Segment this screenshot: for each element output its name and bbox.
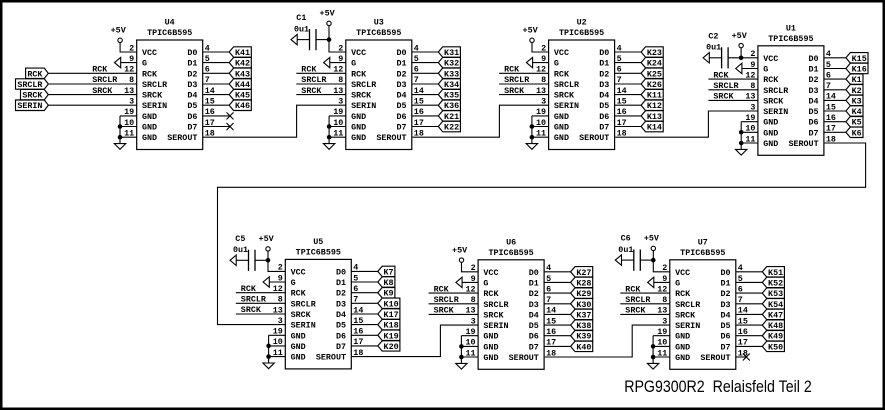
svg-text:K51: K51 xyxy=(768,268,783,278)
svg-text:D0: D0 xyxy=(336,267,346,277)
svg-text:RCK: RCK xyxy=(434,284,450,294)
svg-text:SRCK: SRCK xyxy=(675,310,696,320)
svg-text:SRCLR: SRCLR xyxy=(483,300,509,310)
svg-text:D7: D7 xyxy=(720,342,730,352)
svg-text:D0: D0 xyxy=(529,268,539,278)
svg-text:SEROUT: SEROUT xyxy=(700,353,730,363)
svg-text:VCC: VCC xyxy=(483,268,498,278)
svg-text:SEROUT: SEROUT xyxy=(316,353,346,363)
svg-text:K2: K2 xyxy=(852,86,862,96)
svg-text:RCK: RCK xyxy=(554,69,570,79)
svg-text:GND: GND xyxy=(351,133,366,143)
svg-text:G: G xyxy=(291,278,296,288)
svg-text:G: G xyxy=(554,59,559,69)
svg-text:D6: D6 xyxy=(720,332,730,342)
svg-text:0u1: 0u1 xyxy=(294,24,309,34)
svg-text:D1: D1 xyxy=(529,278,539,288)
svg-text:SERIN: SERIN xyxy=(351,101,376,111)
svg-text:GND: GND xyxy=(554,123,569,133)
svg-text:K8: K8 xyxy=(383,278,393,288)
svg-text:SERIN: SERIN xyxy=(763,107,788,117)
svg-text:U3: U3 xyxy=(374,18,384,28)
svg-text:TPIC6B595: TPIC6B595 xyxy=(356,28,401,38)
svg-text:D4: D4 xyxy=(529,310,539,320)
svg-text:K23: K23 xyxy=(647,48,662,58)
svg-text:SEROUT: SEROUT xyxy=(509,353,539,363)
svg-text:K40: K40 xyxy=(576,342,591,352)
svg-text:D2: D2 xyxy=(336,289,346,299)
svg-text:+5V: +5V xyxy=(259,234,275,244)
svg-text:SRCK: SRCK xyxy=(92,86,113,96)
svg-text:D2: D2 xyxy=(396,69,406,79)
svg-text:K44: K44 xyxy=(235,80,250,90)
svg-text:D4: D4 xyxy=(336,310,346,320)
svg-text:SRCLR: SRCLR xyxy=(554,80,580,90)
svg-text:U2: U2 xyxy=(577,18,587,28)
svg-text:K53: K53 xyxy=(768,289,783,299)
svg-text:GND: GND xyxy=(291,331,306,341)
svg-text:D0: D0 xyxy=(809,54,819,64)
svg-text:G: G xyxy=(763,65,768,75)
svg-text:U4: U4 xyxy=(165,18,175,28)
svg-text:K24: K24 xyxy=(647,59,662,69)
svg-text:D0: D0 xyxy=(396,48,406,58)
svg-text:K54: K54 xyxy=(768,300,783,310)
svg-text:D7: D7 xyxy=(187,123,197,133)
svg-text:VCC: VCC xyxy=(142,48,157,58)
svg-text:D0: D0 xyxy=(599,48,609,58)
svg-text:D1: D1 xyxy=(599,59,609,69)
svg-text:TPIC6B595: TPIC6B595 xyxy=(768,34,813,44)
svg-text:SRCK: SRCK xyxy=(434,306,455,316)
svg-text:GND: GND xyxy=(763,118,778,128)
svg-text:RCK: RCK xyxy=(241,284,257,294)
svg-text:RPG9300R2 Relaisfeld Teil 2: RPG9300R2 Relaisfeld Teil 2 xyxy=(624,377,812,396)
svg-text:SRCLR: SRCLR xyxy=(763,86,789,96)
svg-text:SRCLR: SRCLR xyxy=(713,81,739,91)
svg-text:D3: D3 xyxy=(529,300,539,310)
svg-text:D2: D2 xyxy=(599,69,609,79)
svg-text:SERIN: SERIN xyxy=(554,101,579,111)
svg-text:0u1: 0u1 xyxy=(618,245,633,255)
svg-text:D4: D4 xyxy=(187,91,197,101)
svg-text:K28: K28 xyxy=(576,278,591,288)
svg-text:GND: GND xyxy=(763,128,778,138)
svg-text:K31: K31 xyxy=(444,48,459,58)
svg-text:D1: D1 xyxy=(809,65,819,75)
svg-text:RCK: RCK xyxy=(625,284,641,294)
svg-text:SRCLR: SRCLR xyxy=(291,299,317,309)
svg-text:SRCLR: SRCLR xyxy=(142,80,168,90)
svg-text:K14: K14 xyxy=(647,123,662,133)
svg-text:K13: K13 xyxy=(647,112,662,122)
svg-text:K37: K37 xyxy=(576,310,591,320)
svg-text:0u1: 0u1 xyxy=(706,43,721,53)
svg-text:SRCLR: SRCLR xyxy=(625,295,651,305)
svg-text:D6: D6 xyxy=(187,112,197,122)
svg-text:SERIN: SERIN xyxy=(483,321,508,331)
svg-text:D7: D7 xyxy=(809,128,819,138)
svg-text:D5: D5 xyxy=(336,321,346,331)
svg-text:+5V: +5V xyxy=(644,234,660,244)
svg-text:SRCK: SRCK xyxy=(713,92,734,102)
svg-text:SRCLR: SRCLR xyxy=(241,295,267,305)
svg-text:SRCLR: SRCLR xyxy=(504,75,530,85)
svg-text:TPIC6B595: TPIC6B595 xyxy=(559,28,604,38)
svg-text:GND: GND xyxy=(763,139,778,149)
svg-text:SRCK: SRCK xyxy=(301,86,322,96)
svg-text:SRCK: SRCK xyxy=(483,310,504,320)
svg-text:VCC: VCC xyxy=(763,54,778,64)
svg-text:GND: GND xyxy=(483,353,498,363)
svg-text:K22: K22 xyxy=(444,123,459,133)
svg-text:RCK: RCK xyxy=(483,289,499,299)
svg-text:D5: D5 xyxy=(187,101,197,111)
svg-text:K38: K38 xyxy=(576,321,591,331)
svg-text:D5: D5 xyxy=(720,321,730,331)
svg-text:G: G xyxy=(142,59,147,69)
svg-text:SRCK: SRCK xyxy=(625,306,646,316)
svg-text:GND: GND xyxy=(554,112,569,122)
svg-text:SRCK: SRCK xyxy=(241,305,262,315)
svg-text:RCK: RCK xyxy=(27,69,43,79)
svg-text:K35: K35 xyxy=(444,91,459,101)
svg-text:SERIN: SERIN xyxy=(675,321,700,331)
svg-text:D2: D2 xyxy=(809,75,819,85)
svg-text:SEROUT: SEROUT xyxy=(376,133,406,143)
svg-text:K36: K36 xyxy=(444,101,459,111)
svg-text:K12: K12 xyxy=(647,101,662,111)
svg-text:GND: GND xyxy=(675,332,690,342)
svg-text:TPIC6B595: TPIC6B595 xyxy=(296,248,341,258)
svg-text:VCC: VCC xyxy=(675,268,690,278)
svg-text:SRCLR: SRCLR xyxy=(17,80,43,90)
svg-text:D5: D5 xyxy=(396,101,406,111)
svg-text:K33: K33 xyxy=(444,69,459,79)
svg-text:+5V: +5V xyxy=(320,9,336,19)
svg-text:G: G xyxy=(351,59,356,69)
svg-text:SRCLR: SRCLR xyxy=(351,80,377,90)
svg-text:SRCLR: SRCLR xyxy=(675,300,701,310)
svg-text:GND: GND xyxy=(554,133,569,143)
svg-text:D6: D6 xyxy=(809,118,819,128)
svg-text:RCK: RCK xyxy=(713,70,729,80)
svg-text:K41: K41 xyxy=(235,48,250,58)
svg-text:C5: C5 xyxy=(235,234,245,244)
svg-text:K5: K5 xyxy=(852,118,862,128)
svg-text:TPIC6B595: TPIC6B595 xyxy=(488,248,533,258)
svg-text:K25: K25 xyxy=(647,69,662,79)
svg-text:K19: K19 xyxy=(384,331,399,341)
svg-text:U7: U7 xyxy=(698,238,708,248)
svg-text:SRCK: SRCK xyxy=(763,96,784,106)
svg-text:D2: D2 xyxy=(529,289,539,299)
svg-text:SERIN: SERIN xyxy=(142,101,167,111)
svg-text:SRCK: SRCK xyxy=(22,91,43,101)
svg-text:C6: C6 xyxy=(621,234,631,244)
svg-text:D0: D0 xyxy=(187,48,197,58)
svg-text:GND: GND xyxy=(291,342,306,352)
svg-text:C1: C1 xyxy=(296,13,306,23)
svg-text:K1: K1 xyxy=(852,75,862,85)
svg-text:SRCK: SRCK xyxy=(351,91,372,101)
svg-text:K9: K9 xyxy=(383,289,393,299)
svg-text:D6: D6 xyxy=(529,332,539,342)
svg-text:GND: GND xyxy=(483,332,498,342)
svg-text:K20: K20 xyxy=(384,342,399,352)
svg-text:D1: D1 xyxy=(336,278,346,288)
svg-text:K50: K50 xyxy=(768,342,783,352)
svg-text:K4: K4 xyxy=(852,107,862,117)
svg-text:SEROUT: SEROUT xyxy=(788,139,818,149)
svg-text:GND: GND xyxy=(142,123,157,133)
svg-text:D5: D5 xyxy=(599,101,609,111)
svg-text:D3: D3 xyxy=(336,299,346,309)
svg-text:RCK: RCK xyxy=(92,65,108,75)
svg-text:D7: D7 xyxy=(396,123,406,133)
svg-text:GND: GND xyxy=(291,353,306,363)
svg-text:GND: GND xyxy=(142,112,157,122)
svg-text:K3: K3 xyxy=(852,96,862,106)
svg-text:RCK: RCK xyxy=(504,65,520,75)
svg-text:VCC: VCC xyxy=(351,48,366,58)
svg-text:K7: K7 xyxy=(383,267,393,277)
svg-text:SRCLR: SRCLR xyxy=(92,75,118,85)
svg-text:D3: D3 xyxy=(599,80,609,90)
svg-text:TPIC6B595: TPIC6B595 xyxy=(680,248,725,258)
svg-text:K18: K18 xyxy=(384,321,399,331)
svg-text:0u1: 0u1 xyxy=(233,245,248,255)
svg-text:GND: GND xyxy=(675,353,690,363)
svg-text:D3: D3 xyxy=(809,86,819,96)
svg-text:K30: K30 xyxy=(576,300,591,310)
svg-text:GND: GND xyxy=(351,123,366,133)
svg-text:D7: D7 xyxy=(336,342,346,352)
svg-text:C2: C2 xyxy=(708,31,718,41)
svg-text:SRCK: SRCK xyxy=(291,310,312,320)
svg-text:K16: K16 xyxy=(852,65,867,75)
svg-text:GND: GND xyxy=(483,342,498,352)
svg-text:D2: D2 xyxy=(720,289,730,299)
svg-text:SEROUT: SEROUT xyxy=(167,133,197,143)
svg-text:+5V: +5V xyxy=(732,31,748,41)
svg-text:D6: D6 xyxy=(599,112,609,122)
svg-text:D3: D3 xyxy=(720,300,730,310)
svg-text:U5: U5 xyxy=(313,237,323,247)
svg-text:D7: D7 xyxy=(529,342,539,352)
svg-text:+5V: +5V xyxy=(111,26,127,36)
svg-text:K42: K42 xyxy=(235,59,250,69)
svg-text:G: G xyxy=(675,278,680,288)
svg-text:D5: D5 xyxy=(809,107,819,117)
svg-text:D4: D4 xyxy=(599,91,609,101)
svg-text:VCC: VCC xyxy=(291,267,306,277)
svg-text:RCK: RCK xyxy=(291,289,307,299)
svg-text:SERIN: SERIN xyxy=(17,101,42,111)
svg-text:G: G xyxy=(483,278,488,288)
svg-text:RCK: RCK xyxy=(763,75,779,85)
svg-text:K6: K6 xyxy=(852,128,862,138)
svg-text:K27: K27 xyxy=(576,268,591,278)
svg-text:K47: K47 xyxy=(768,310,783,320)
svg-text:VCC: VCC xyxy=(554,48,569,58)
svg-text:+5V: +5V xyxy=(523,26,539,36)
svg-text:D4: D4 xyxy=(720,310,730,320)
svg-text:K21: K21 xyxy=(444,112,459,122)
svg-text:RCK: RCK xyxy=(142,69,158,79)
svg-text:SRCLR: SRCLR xyxy=(434,295,460,305)
svg-text:TPIC6B595: TPIC6B595 xyxy=(147,28,192,38)
svg-text:K34: K34 xyxy=(444,80,459,90)
svg-text:D1: D1 xyxy=(187,59,197,69)
svg-text:D0: D0 xyxy=(720,268,730,278)
svg-text:K29: K29 xyxy=(576,289,591,299)
svg-text:K49: K49 xyxy=(768,332,783,342)
svg-text:K46: K46 xyxy=(235,101,250,111)
svg-text:RCK: RCK xyxy=(351,69,367,79)
svg-text:GND: GND xyxy=(351,112,366,122)
svg-text:SERIN: SERIN xyxy=(291,321,316,331)
svg-text:RCK: RCK xyxy=(675,289,691,299)
svg-text:D2: D2 xyxy=(187,69,197,79)
svg-text:SEROUT: SEROUT xyxy=(579,133,609,143)
svg-text:K43: K43 xyxy=(235,69,250,79)
svg-text:D4: D4 xyxy=(396,91,406,101)
svg-text:U6: U6 xyxy=(506,238,516,248)
svg-text:D3: D3 xyxy=(187,80,197,90)
svg-text:K10: K10 xyxy=(384,299,399,309)
svg-text:D1: D1 xyxy=(396,59,406,69)
svg-text:GND: GND xyxy=(142,133,157,143)
svg-text:GND: GND xyxy=(675,342,690,352)
svg-text:U1: U1 xyxy=(786,24,796,34)
svg-text:D1: D1 xyxy=(720,278,730,288)
svg-text:D5: D5 xyxy=(529,321,539,331)
svg-text:K45: K45 xyxy=(235,91,250,101)
svg-text:K11: K11 xyxy=(647,91,662,101)
svg-text:SRCK: SRCK xyxy=(504,86,525,96)
svg-text:K39: K39 xyxy=(576,332,591,342)
svg-text:K26: K26 xyxy=(647,80,662,90)
svg-text:K17: K17 xyxy=(384,310,399,320)
svg-text:D4: D4 xyxy=(809,96,819,106)
svg-text:D7: D7 xyxy=(599,123,609,133)
svg-text:K48: K48 xyxy=(768,321,783,331)
svg-text:RCK: RCK xyxy=(301,65,317,75)
svg-text:SRCK: SRCK xyxy=(554,91,575,101)
svg-text:K32: K32 xyxy=(444,59,459,69)
svg-text:SRCK: SRCK xyxy=(142,91,163,101)
svg-text:D6: D6 xyxy=(336,331,346,341)
svg-text:D3: D3 xyxy=(396,80,406,90)
svg-text:D6: D6 xyxy=(396,112,406,122)
svg-text:+5V: +5V xyxy=(452,245,468,255)
svg-text:K52: K52 xyxy=(768,278,783,288)
svg-text:K15: K15 xyxy=(852,54,867,64)
svg-text:SRCLR: SRCLR xyxy=(301,75,327,85)
